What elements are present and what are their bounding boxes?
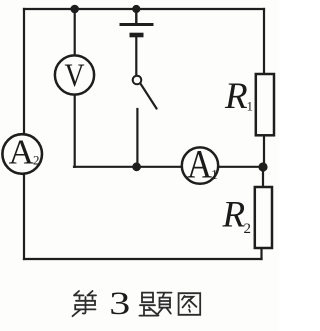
battery long plate (+) <box>120 23 154 26</box>
wire: top horizontal <box>24 8 264 10</box>
battery cell E <box>120 11 154 35</box>
battery short plate (-) <box>130 33 144 38</box>
svg-text:2: 2 <box>244 221 252 237</box>
svg-text:A: A <box>9 133 35 172</box>
node B (middle right, between R1 and R2) <box>258 162 267 171</box>
svg-text:1: 1 <box>247 99 254 114</box>
ammeter A2 <box>2 133 42 174</box>
ammeter A1 <box>182 143 218 187</box>
wire: bottom horizontal <box>24 258 262 260</box>
node C (middle, switch tap) <box>132 162 141 171</box>
label R2 <box>222 195 252 237</box>
wire: middle horizontal through A1 <box>74 166 263 168</box>
wire: battery to switch segment <box>135 36 137 75</box>
label R1 <box>224 76 253 117</box>
wire: left vertical <box>23 9 25 259</box>
wire: switch to node C segment <box>136 109 138 167</box>
wire: R2 bottom to bottom wire <box>260 248 262 259</box>
wire: R1 bottom to node B <box>263 135 265 167</box>
svg-text:A: A <box>187 143 212 187</box>
wire: voltmeter branch vertical <box>74 9 76 167</box>
caption: character 题 <box>140 293 172 316</box>
caption: character 图 <box>179 293 201 315</box>
voltmeter V <box>55 55 94 94</box>
resistor R2 <box>255 187 272 248</box>
svg-text:2: 2 <box>33 153 40 168</box>
node A (top, voltmeter tap) <box>70 5 79 14</box>
node D (top, battery tap) <box>132 5 140 13</box>
svg-text:R: R <box>222 195 246 236</box>
wire: right vertical (top to R1) <box>263 9 265 74</box>
svg-text:R: R <box>224 76 248 117</box>
svg-text:V: V <box>64 57 84 94</box>
resistor R1 <box>256 74 274 135</box>
caption: character 第 <box>73 291 97 316</box>
caption: digit 3 <box>109 287 130 322</box>
wire: node B to R2 top <box>262 167 264 187</box>
svg-text:3: 3 <box>109 287 130 322</box>
switch S <box>133 76 157 109</box>
svg-text:1: 1 <box>211 168 218 183</box>
